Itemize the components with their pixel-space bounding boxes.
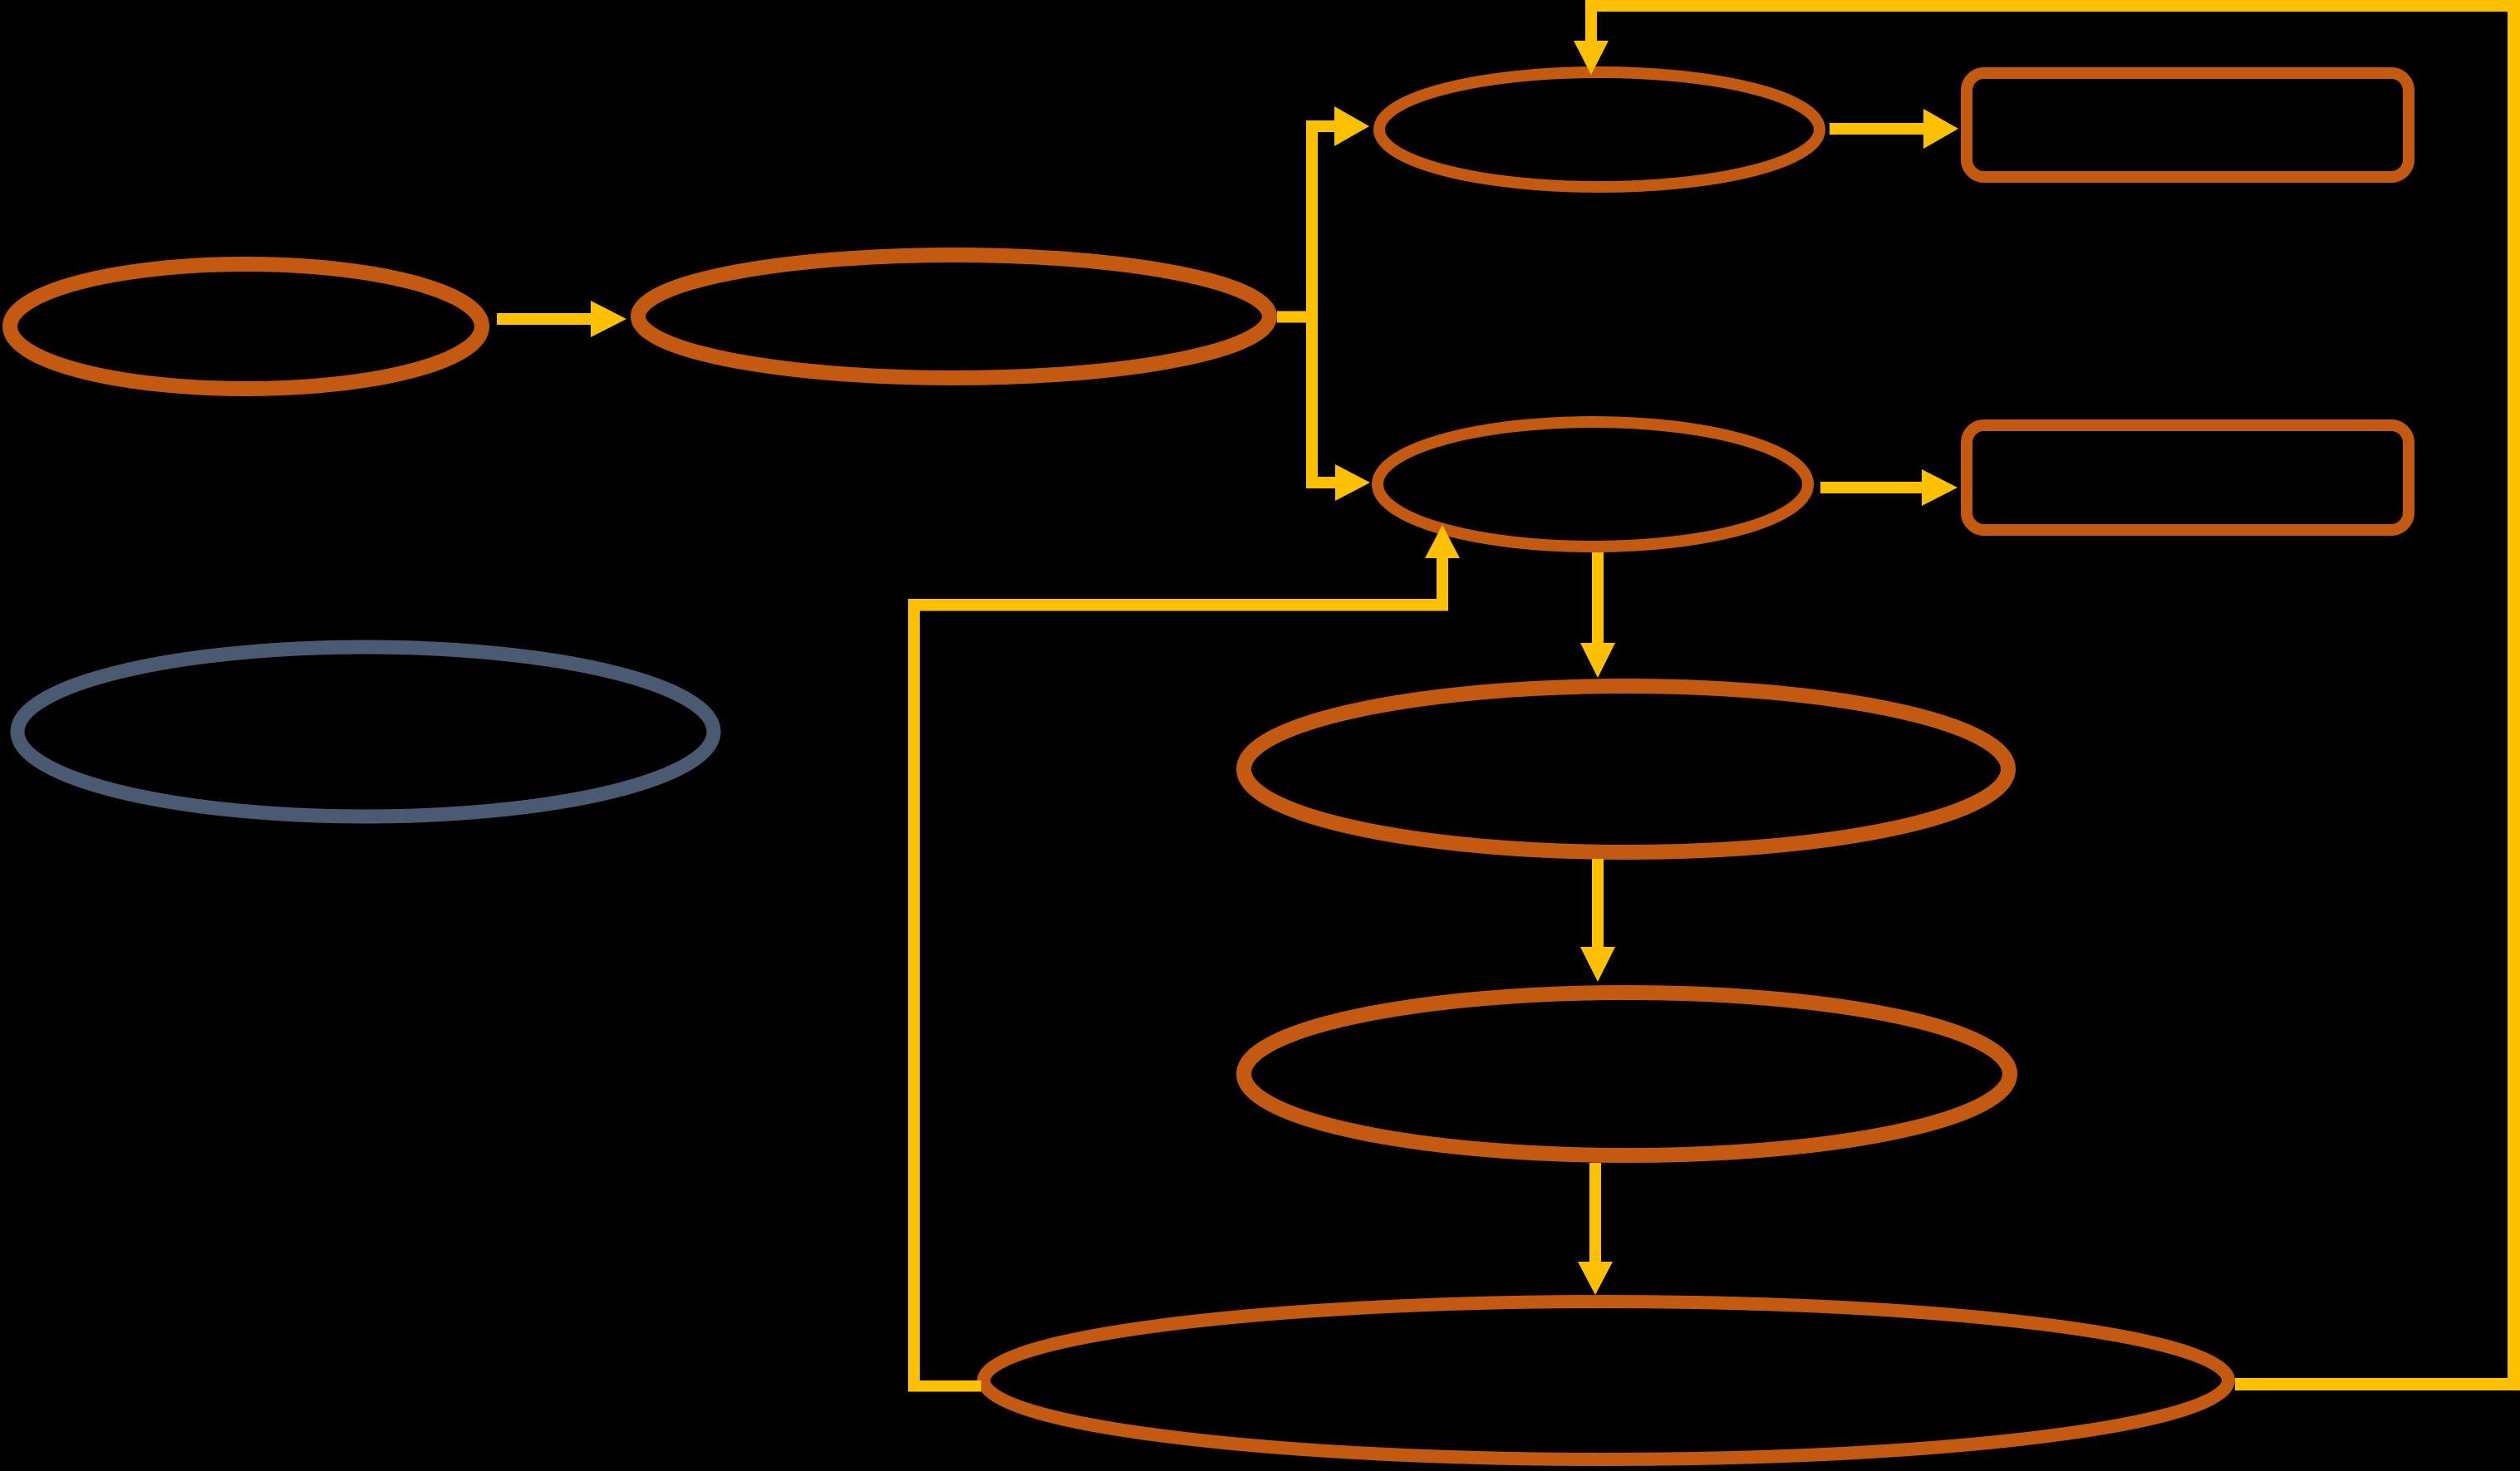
wire loopL up head (into E5 bottom): [1425, 525, 1460, 558]
wire A5 shaft (E5 down to E7): [1592, 552, 1604, 643]
wire A1 shaft (E1 to E2): [497, 313, 591, 325]
wire A7 shaft (E8 down to big ellipse): [1589, 1163, 1601, 1262]
ellipse E3 (top-right orange): [1379, 72, 1820, 187]
rectangle R2 (right rounded): [1967, 425, 2409, 530]
wire A3 head: [1923, 109, 1958, 149]
wire A2 bottom branch head: [1335, 464, 1370, 501]
wire loopR right riser vertical: [2508, 0, 2520, 1390]
wire A3 shaft (E3 to rect R1): [1830, 123, 1923, 135]
wire loopR bottom horizontal (big ellipse to right edge): [2235, 1378, 2520, 1390]
wire loopL top horizontal: [908, 599, 1448, 611]
wire loopR top horizontal: [1585, 0, 2520, 12]
wire A2 trunk vertical: [1306, 120, 1318, 488]
wire A6 head: [1580, 947, 1615, 982]
wire A2 top branch: [1306, 120, 1334, 132]
wire A2 top branch head: [1334, 106, 1369, 146]
ellipse E5 (second-row orange): [1378, 422, 1808, 547]
wire A1 head: [591, 301, 626, 337]
ellipse BIG (bottom orange): [984, 1302, 2228, 1459]
wire loopR down stub: [1585, 12, 1597, 41]
ellipse E2 (center orange): [638, 255, 1270, 378]
wire A6 shaft (E7 down to E8): [1592, 859, 1604, 947]
ellipse BLUE (left slate ellipse): [17, 647, 714, 816]
wire A2 bottom branch: [1306, 477, 1335, 488]
wire loopL bottom horizontal (big ellipse to left riser): [908, 1380, 981, 1392]
rectangle R1 (top-right rounded): [1967, 73, 2409, 177]
ellipse E7 (middle large orange): [1244, 686, 2008, 852]
ellipse E1 (top-left orange): [10, 264, 482, 389]
wire A4 shaft (E5 to rect R2): [1820, 482, 1922, 493]
wire loopL up stub: [1437, 558, 1448, 611]
wire A2 stub from E2: [1277, 311, 1318, 323]
wire loopR down head (into E3 top): [1574, 41, 1609, 75]
wire A5 head: [1580, 643, 1615, 678]
ellipse E8 (lower large orange): [1244, 993, 2010, 1155]
wire A4 head: [1922, 469, 1958, 506]
wire loopL left riser vertical: [908, 599, 920, 1392]
wire A7 head: [1578, 1262, 1613, 1295]
